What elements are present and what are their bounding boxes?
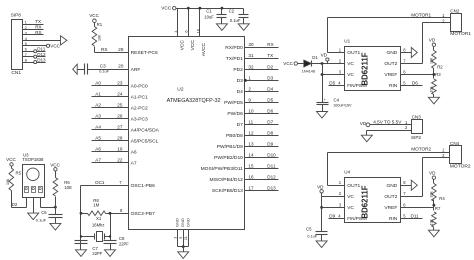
ground below U3 center pin [28,213,39,220]
svg-text:21: 21 [184,236,188,240]
svg-text:VREF: VREF [384,72,397,78]
wire A0 (pin 23) [92,81,129,86]
svg-text:C1: C1 [206,9,212,14]
svg-text:VCC: VCC [50,43,60,48]
svg-text:CN3: CN3 [412,115,422,120]
svg-text:A6: A6 [95,147,101,152]
U2 GND pins 3 5 21 stubs [173,230,188,247]
svg-text:VD: VD [429,37,436,42]
svg-text:10E: 10E [64,185,72,190]
svg-text:D9: D9 [329,213,335,218]
svg-text:PB0/D8: PB0/D8 [226,133,243,139]
svg-text:R7: R7 [435,206,441,211]
connector CN1 SIP8 [11,13,23,70]
wire U4 OUT1 to MOTOR2 [328,147,450,186]
resistor R5 10K [6,168,22,191]
wire R3 to ground [433,95,435,98]
svg-text:17: 17 [248,185,254,190]
svg-text:1M: 1M [93,202,99,207]
svg-text:SIP2: SIP2 [411,135,421,140]
wire U1 RIN net D6 [401,80,423,85]
ground arrow U1 GND pin [401,48,418,58]
junction crystal right [109,235,111,237]
svg-text:PW/D6: PW/D6 [227,111,243,117]
svg-text:PW/PB2/D10: PW/PB2/D10 [214,155,243,161]
svg-text:D9: D9 [267,141,273,146]
wire to ground U2 [183,247,185,252]
svg-text:10: 10 [248,108,254,113]
U2 right pin labels [201,45,244,194]
svg-text:OC1: OC1 [95,180,105,185]
svg-text:D12: D12 [37,52,46,57]
resistor R2 10K [430,51,444,70]
svg-text:OUT2: OUT2 [384,194,397,200]
junction below U2 GND pins [182,245,185,248]
ground below C4 [317,112,328,119]
wire R6 to C6 [55,197,57,215]
svg-text:R1: R1 [97,22,103,27]
wire RS (CN1 pin 3) [23,30,44,35]
svg-text:D2: D2 [12,202,18,207]
op-amp U2 ATMEGA328TQFP-32 body [129,37,245,230]
svg-text:GND: GND [387,50,398,56]
motor driver U4 BD6211F body [344,170,400,223]
svg-text:D6: D6 [267,108,273,113]
svg-text:A5/PC5/SCL: A5/PC5/SCL [131,138,159,144]
junction OSC1 rail at R8 [80,212,83,215]
svg-text:RS: RS [101,47,107,52]
U3 pin stubs [27,198,41,214]
svg-text:C2: C2 [229,9,235,14]
svg-text:22: 22 [117,158,123,163]
svg-text:A0: A0 [95,81,101,86]
svg-text:D7: D7 [267,119,273,124]
capacitor C4 100uF/16V [317,98,353,112]
svg-text:RX: RX [35,25,41,30]
wire OSC1 net OC1 [81,180,129,249]
svg-text:10K: 10K [6,178,10,185]
svg-text:VCC: VCC [89,13,99,18]
svg-text:D3: D3 [237,78,244,84]
wire A7 (pin 22) [92,158,129,163]
svg-text:OUT1: OUT1 [347,50,360,56]
connector CN2 MOTOR1 [442,9,471,38]
svg-text:RIN: RIN [389,216,398,222]
svg-text:BD6211F: BD6211F [360,52,369,85]
wire net D4 (U2 pin 2) [245,86,279,91]
resistor R3 [430,79,437,95]
svg-text:30: 30 [248,42,254,47]
resistor R7 [430,212,437,227]
node D12 (CN1 pin 7) [23,52,47,58]
svg-text:A4: A4 [95,125,101,130]
ground below C7 [76,250,87,257]
ground below R3 [428,97,439,104]
svg-text:29: 29 [118,47,124,52]
svg-text:GND: GND [185,218,190,227]
svg-text:MOTOR1: MOTOR1 [450,31,471,37]
wire RS to RESET pin 29 [95,47,129,53]
wire net D9 (U2 pin 13) [245,141,279,146]
node VD power input 4.5V TO 5.5V [360,119,412,126]
U2 VCC pin 6 stub [184,9,189,37]
svg-text:2: 2 [248,86,251,91]
svg-text:1N4148: 1N4148 [302,70,315,74]
svg-text:D11: D11 [267,163,276,168]
svg-text:0.1uF: 0.1uF [307,235,317,239]
svg-text:MOTOR1: MOTOR1 [411,12,431,17]
svg-text:VCC: VCC [179,40,185,51]
svg-text:RS: RS [35,30,41,35]
U1 left pin labels [347,50,367,88]
svg-text:0.1uF: 0.1uF [99,70,109,74]
svg-text:VC: VC [347,194,354,200]
svg-text:A7: A7 [95,158,101,163]
U2 AVCC pin 18 stub [195,9,200,37]
wire U4 VREF to divider [401,207,434,209]
svg-text:VD: VD [429,170,436,175]
svg-text:A2-PC2: A2-PC2 [131,105,148,111]
svg-text:26: 26 [117,114,123,119]
svg-text:VC: VC [347,205,354,211]
wire TX (CN1 pin 1) [23,19,44,24]
svg-text:RESET-PC6: RESET-PC6 [131,50,158,56]
svg-text:OUT1: OUT1 [347,183,360,189]
U1 right pin labels [384,50,397,89]
U2 left pin labels [131,50,160,217]
svg-text:GND: GND [180,218,185,227]
capacitor C1 10uF [204,9,226,24]
svg-text:A2: A2 [95,103,101,108]
wire net D3 (U2 pin 1) [245,75,279,80]
wire U4 RIN net D11 [401,213,423,218]
wire D9 to U4 FIN/PWM [329,213,345,218]
svg-text:16: 16 [248,174,254,179]
U2 top pin labels VCC VCC AVCC [179,40,207,57]
wire U1 VREF to divider [401,74,434,76]
ground arrow U4 GND pin [401,180,418,190]
svg-text:VD: VD [321,52,328,57]
ground below U2 [178,252,189,259]
power VCC flag top rail [161,6,176,11]
capacitor C5 0.1uF [306,226,328,240]
svg-text:D11: D11 [37,47,46,52]
svg-text:PW/PD5: PW/PD5 [224,100,243,106]
capacitor C7 22PF [75,241,103,257]
svg-text:A3-PC3: A3-PC3 [131,116,148,122]
U2 bottom pin labels GND GND GND [175,218,191,227]
svg-text:D11: D11 [411,213,420,218]
capacitor C3 0.1uF [78,63,110,74]
svg-text:U2: U2 [177,87,184,93]
capacitor C6 0.1uF [36,210,63,223]
svg-text:TSOP1838: TSOP1838 [22,157,44,162]
svg-text:X1: X1 [96,216,102,221]
U4 pin numbers [339,180,407,218]
node D13 (CN1 pin 8) [23,58,47,64]
wire RX (CN1 pin 2) [23,25,44,30]
wire net D6 (U2 pin 10) [245,108,279,113]
svg-text:4.5V TO 5.5V: 4.5V TO 5.5V [373,119,402,124]
svg-text:0.1uF: 0.1uF [230,18,241,23]
svg-text:FIN/PWM: FIN/PWM [347,83,367,88]
svg-text:U4: U4 [344,170,350,175]
wire U3 VCC pin to filter [41,206,57,209]
ground below C2 [238,24,249,31]
net arrow AREF input [73,64,78,74]
svg-text:R2: R2 [437,65,443,70]
resistor R1 10K [92,22,103,46]
wire net D5 (U2 pin 9) [245,97,279,102]
svg-text:VCC: VCC [161,6,171,11]
svg-text:D13: D13 [267,185,276,190]
svg-text:10K: 10K [430,191,434,198]
wire CN3 pin 2 to ground [367,131,412,136]
svg-text:10K: 10K [430,57,434,64]
svg-text:RX/PD0: RX/PD0 [225,45,243,51]
svg-text:10K: 10K [430,86,434,93]
wire net RX (U2 pin 30) [245,42,279,47]
wire A4 (pin 27) [92,125,129,130]
svg-text:19: 19 [117,147,123,152]
wire D5 to U1 FIN/PWM [329,80,345,85]
svg-text:ARF: ARF [131,67,141,73]
svg-text:22PF: 22PF [119,241,129,246]
ground below C5 [316,241,327,248]
svg-text:10uF: 10uF [204,14,214,19]
svg-text:27: 27 [117,125,123,130]
svg-text:D8: D8 [267,130,273,135]
wire net TX (U2 pin 31) [245,53,279,58]
svg-text:OSC1-PB6: OSC1-PB6 [131,183,155,189]
capacitor C2 0.1uF [229,9,249,24]
svg-text:22PF: 22PF [92,251,102,256]
power VCC flag for R5 [6,157,16,168]
node VD above R4 [429,170,436,183]
svg-text:3: 3 [173,237,177,239]
wire VD rail down to C4 [321,64,345,103]
crystal X1 16MHz [81,216,111,242]
svg-text:A3: A3 [95,114,101,119]
svg-text:R4: R4 [439,196,445,201]
svg-text:R5: R5 [16,171,22,176]
svg-text:10K: 10K [98,34,102,41]
resistor R8 1M [81,198,106,216]
svg-text:ATMEGA328TQFP-32: ATMEGA328TQFP-32 [167,98,221,104]
ground below C6 [50,223,61,230]
svg-text:A4/PC4/SDA: A4/PC4/SDA [131,127,160,133]
CN1 pin numbers 1-8 [25,20,28,63]
svg-text:D5: D5 [329,80,335,85]
svg-text:D7: D7 [237,122,244,128]
wire A5 (pin 28) [92,136,129,141]
svg-text:U1: U1 [344,38,350,43]
U2 VCC pin 4 stub [173,9,178,37]
svg-text:16Mhz: 16Mhz [92,222,104,227]
wire U1 OUT2 to CN2 pin 2 [401,23,451,64]
svg-text:D4: D4 [267,86,273,91]
svg-text:CN2: CN2 [450,9,460,14]
wire A6 (pin 19) [92,147,129,152]
svg-text:6: 6 [184,30,189,32]
wire ARF to pin 20 [88,63,129,69]
svg-text:GND: GND [387,183,398,189]
wire OSC2 to pin 8 [106,208,129,213]
svg-text:9: 9 [248,97,251,102]
svg-text:24: 24 [117,92,123,97]
svg-text:12: 12 [248,130,254,135]
svg-text:AVCC: AVCC [201,43,207,57]
junction on D3 stub [244,79,247,82]
svg-text:SCK/PB5/D13: SCK/PB5/D13 [212,188,243,194]
wire CN1 pin 4 with off-page arrow [23,36,67,45]
svg-text:PD2: PD2 [233,67,243,73]
power VCC flag for R6 [50,162,60,177]
svg-text:0.1uF: 0.1uF [36,218,47,223]
resistor R6 10E [53,178,72,197]
svg-text:R3: R3 [435,72,441,77]
wire net D2 (U2 pin 32) [245,64,279,69]
svg-text:SIP8: SIP8 [11,13,21,18]
U4 right pin labels [384,183,397,222]
svg-text:D13: D13 [37,58,46,63]
U1 pin numbers [339,47,407,85]
svg-text:A1-PC1: A1-PC1 [131,94,148,100]
svg-text:20: 20 [118,63,124,68]
junction crystal left [80,235,82,237]
svg-text:TX: TX [35,19,41,24]
wire net D12 (U2 pin 16) [245,174,279,179]
wire R5 to D2 node [11,191,13,208]
wire net D7 (U2 pin 11) [245,119,279,124]
svg-text:RX: RX [267,42,273,47]
svg-text:VD: VD [317,184,324,189]
ground below C1 [216,24,227,31]
wire net D11 (U2 pin 15) [245,163,279,168]
svg-text:18: 18 [195,29,200,33]
svg-text:32: 32 [248,64,254,69]
svg-text:25: 25 [117,103,123,108]
label CN1 [11,70,21,76]
svg-text:CN1: CN1 [11,70,21,76]
wire OSC2 rail down [109,212,112,241]
wire net D10 (U2 pin 14) [245,152,279,157]
svg-text:C5: C5 [306,226,312,231]
junction dots on VCC rail [187,7,223,10]
ground below CN3 pin 2 [361,135,372,142]
svg-text:10K: 10K [430,218,434,225]
motor driver U1 BD6211F body [344,38,400,90]
svg-text:MOSI/PW/PB3/D11: MOSI/PW/PB3/D11 [201,166,244,172]
ground below R7 [428,230,439,237]
svg-text:31: 31 [248,53,254,58]
svg-text:VC: VC [347,61,354,67]
wire R4 to R7 [433,200,442,211]
wire D1 to U1 VC [312,63,345,65]
svg-text:A0-PC0: A0-PC0 [131,83,148,89]
node VD at U4 [317,184,344,196]
svg-text:TX: TX [267,53,273,58]
svg-text:VC: VC [347,72,354,78]
svg-text:5: 5 [179,237,183,239]
wire VCC rail [176,8,244,10]
svg-text:MOTOR2: MOTOR2 [450,164,471,170]
wire net D13 (U2 pin 17) [245,185,279,190]
svg-text:15: 15 [248,163,254,168]
connector CN3 SIP2 [405,115,423,140]
svg-text:100uF/16V: 100uF/16V [333,104,352,108]
svg-text:VREF: VREF [384,205,397,211]
svg-text:GND: GND [175,218,180,227]
svg-text:D1: D1 [312,55,318,60]
svg-text:MISO/PB4/D12: MISO/PB4/D12 [209,177,243,183]
wire A2 (pin 25) [92,103,129,108]
power VCC flag for R1 [89,13,99,27]
svg-text:VCC: VCC [283,61,293,66]
svg-text:C6: C6 [41,210,47,215]
wire U4 OUT2 to CN4 pin 2 [401,158,450,197]
svg-text:D6: D6 [412,80,418,85]
wire U1 OUT1 to MOTOR1 [328,12,451,52]
wire A1 (pin 24) [92,92,129,97]
svg-text:TX/PD1: TX/PD1 [226,56,243,62]
svg-text:23: 23 [117,81,123,86]
svg-text:D10: D10 [267,152,276,157]
svg-text:MOTOR2: MOTOR2 [411,147,431,152]
ground below C8 [105,250,116,257]
svg-text:VCC: VCC [50,162,60,167]
svg-text:D4: D4 [237,89,244,95]
svg-text:11: 11 [248,119,253,124]
svg-text:VCC: VCC [6,157,16,162]
svg-text:28: 28 [117,136,123,141]
wire VD rail down to C5 [320,197,344,232]
svg-text:D3: D3 [267,75,273,80]
svg-text:BD6211F: BD6211F [360,185,369,218]
wire net D8 (U2 pin 12) [245,130,279,135]
diode D1 1N4148 [302,55,319,74]
svg-text:1: 1 [248,75,251,80]
svg-text:VCC: VCC [190,40,196,51]
resistor R4 10K [430,184,446,202]
svg-text:FIN/PWM: FIN/PWM [347,216,367,221]
wire R2 to R3 [433,69,442,79]
svg-text:A7: A7 [131,160,137,166]
node VD above R2 [429,37,436,50]
node D11 (CN1 pin 6) [23,47,46,53]
power VCC flag for D1 [283,61,303,66]
svg-text:13: 13 [248,141,254,146]
U4 left pin labels [347,183,367,221]
svg-text:D12: D12 [267,174,276,179]
svg-text:D5: D5 [267,97,273,102]
svg-text:RIN: RIN [389,83,398,89]
svg-text:A6: A6 [131,149,137,155]
node VD at U1 [321,52,329,65]
node VCC (CN1 pin 5) [23,43,61,48]
svg-text:C4: C4 [334,98,340,103]
svg-text:PW/PB1/D9: PW/PB1/D9 [217,144,243,150]
node D2 wire to U3 output [12,202,27,207]
connector CN4 MOTOR2 [442,141,471,170]
svg-text:D2: D2 [267,64,273,69]
wire R7 to ground [433,228,435,231]
capacitor C8 22PF [104,236,130,249]
IR receiver U3 TSOP1838 [22,152,44,197]
svg-text:OUT2: OUT2 [384,61,397,67]
svg-text:C3: C3 [100,63,106,68]
svg-text:A5: A5 [95,136,101,141]
